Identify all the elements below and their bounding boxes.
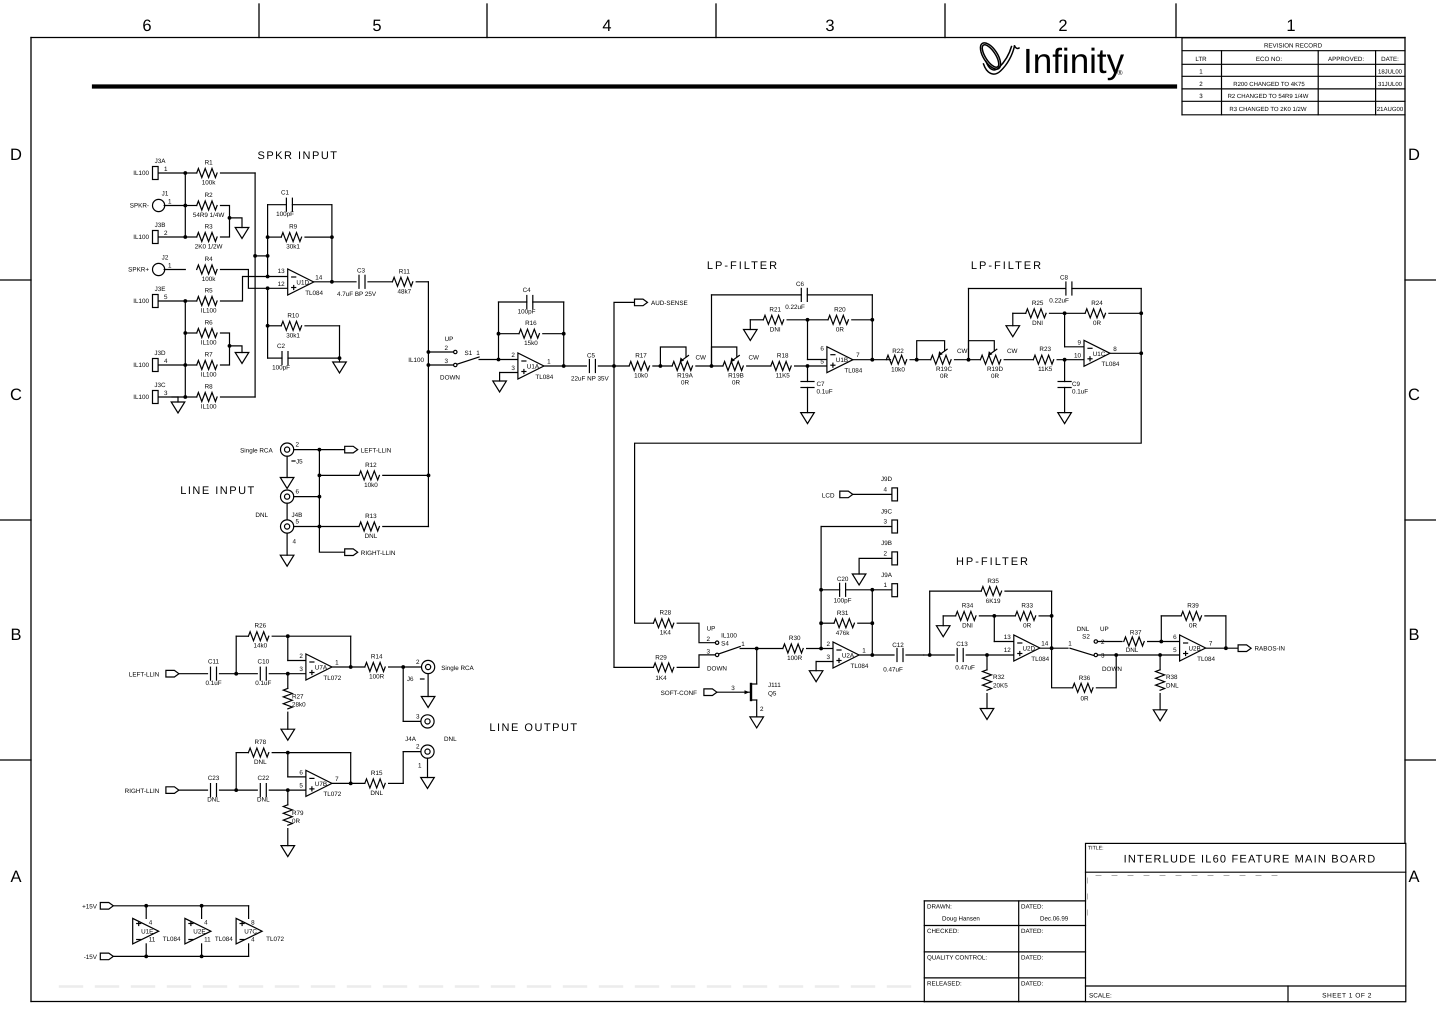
svg-text:U1B: U1B (836, 357, 848, 364)
svg-text:2: 2 (1199, 81, 1203, 88)
svg-text:DNI: DNI (1032, 320, 1043, 327)
svg-text:D: D (10, 146, 22, 164)
svg-text:J111: J111 (768, 682, 781, 689)
svg-text:5: 5 (164, 294, 168, 301)
svg-text:DOWN: DOWN (707, 666, 727, 673)
svg-text:R17: R17 (635, 353, 647, 360)
svg-text:LTR: LTR (1195, 56, 1207, 63)
svg-text:J9A: J9A (881, 572, 893, 579)
svg-text:22uF NP 35V: 22uF NP 35V (571, 376, 609, 383)
svg-text:2K0 1/2W: 2K0 1/2W (195, 244, 223, 251)
svg-text:S1: S1 (465, 350, 473, 357)
svg-text:0R: 0R (1023, 622, 1032, 629)
svg-text:C11: C11 (208, 659, 220, 666)
svg-text:R29: R29 (655, 655, 667, 662)
svg-text:100pF: 100pF (834, 598, 852, 605)
svg-text:3: 3 (1101, 653, 1105, 660)
svg-text:J9D: J9D (881, 476, 893, 483)
svg-text:DATED:: DATED: (1021, 904, 1044, 911)
svg-text:1: 1 (335, 660, 339, 667)
svg-text:R25: R25 (1032, 300, 1044, 307)
svg-text:J5: J5 (296, 459, 303, 466)
svg-text:Single RCA: Single RCA (240, 448, 273, 455)
svg-text:J3B: J3B (155, 222, 166, 229)
svg-text:R19A: R19A (677, 373, 694, 380)
svg-text:2: 2 (706, 636, 710, 643)
svg-text:TL072: TL072 (266, 936, 284, 943)
svg-text:R36: R36 (1079, 675, 1091, 682)
svg-text:TL084: TL084 (163, 936, 181, 943)
svg-text:R11: R11 (399, 268, 411, 275)
svg-text:100k: 100k (202, 180, 217, 187)
svg-text:RABOS-IN: RABOS-IN (1255, 646, 1286, 653)
svg-text:DNL: DNL (207, 797, 220, 804)
svg-text:Doug Hansen: Doug Hansen (942, 916, 980, 923)
svg-text:1: 1 (418, 763, 422, 770)
svg-text:SCALE:: SCALE: (1089, 993, 1112, 1000)
svg-text:TL084: TL084 (215, 936, 233, 943)
svg-text:J3A: J3A (155, 158, 167, 165)
svg-text:R24: R24 (1091, 300, 1103, 307)
svg-text:R37: R37 (1130, 630, 1142, 637)
svg-text:J6: J6 (407, 676, 414, 683)
svg-text:10k0: 10k0 (891, 367, 905, 374)
svg-text:3: 3 (164, 390, 168, 397)
svg-text:LP-FILTER: LP-FILTER (707, 260, 779, 272)
svg-text:C8: C8 (1060, 275, 1069, 282)
svg-text:3: 3 (511, 365, 515, 372)
svg-text:®: ® (1117, 70, 1123, 77)
svg-text:0.1uF: 0.1uF (817, 389, 833, 396)
svg-text:7: 7 (1209, 641, 1213, 648)
svg-text:U7A: U7A (315, 665, 328, 672)
svg-text:+15V: +15V (82, 904, 98, 911)
svg-text:14: 14 (315, 275, 323, 282)
svg-text:0.47uF: 0.47uF (883, 667, 903, 674)
svg-text:SPKR+: SPKR+ (128, 267, 149, 274)
svg-text:12: 12 (278, 281, 286, 288)
svg-text:RIGHT-LLIN: RIGHT-LLIN (125, 788, 160, 795)
svg-text:6: 6 (820, 346, 824, 353)
svg-text:11: 11 (149, 937, 156, 944)
svg-text:30k1: 30k1 (286, 332, 300, 339)
svg-text:R10: R10 (287, 312, 299, 319)
svg-text:R2: R2 (205, 192, 214, 199)
svg-text:2: 2 (416, 659, 420, 666)
svg-text:1: 1 (862, 648, 866, 655)
svg-text:TL084: TL084 (851, 663, 869, 670)
svg-text:DATED:: DATED: (1021, 981, 1044, 988)
svg-text:8: 8 (251, 920, 255, 927)
svg-text:R19B: R19B (728, 373, 744, 380)
svg-text:2: 2 (1058, 17, 1067, 35)
svg-text:TL084: TL084 (1197, 656, 1215, 663)
svg-text:J1: J1 (162, 191, 169, 198)
svg-text:B: B (10, 626, 21, 644)
svg-text:TITLE:: TITLE: (1088, 846, 1104, 852)
svg-text:1: 1 (168, 263, 172, 270)
svg-text:11K5: 11K5 (1038, 366, 1053, 373)
svg-text:1K4: 1K4 (655, 675, 667, 682)
svg-text:C4: C4 (523, 287, 532, 294)
svg-text:2: 2 (1101, 639, 1105, 646)
svg-text:DNL: DNL (257, 797, 270, 804)
svg-text:5: 5 (372, 17, 381, 35)
svg-text:DRAWN:: DRAWN: (927, 904, 952, 911)
svg-text:U1D: U1D (296, 280, 309, 287)
svg-text:10k0: 10k0 (634, 373, 648, 380)
svg-text:TL084: TL084 (1031, 656, 1049, 663)
svg-text:6: 6 (142, 17, 151, 35)
svg-text:5: 5 (296, 519, 300, 526)
svg-text:18JUL00: 18JUL00 (1378, 69, 1403, 76)
svg-text:2: 2 (299, 653, 303, 660)
svg-text:0.22uF: 0.22uF (785, 304, 805, 311)
svg-text:3: 3 (299, 666, 303, 673)
svg-text:U1C: U1C (1093, 351, 1106, 358)
svg-text:R200 CHANGED TO 4K75: R200 CHANGED TO 4K75 (1233, 81, 1305, 88)
svg-text:DATED:: DATED: (1021, 928, 1044, 935)
svg-text:3: 3 (444, 358, 448, 365)
svg-text:6: 6 (299, 769, 303, 776)
svg-text:R32: R32 (993, 674, 1005, 681)
svg-text:S4: S4 (721, 641, 729, 648)
svg-text:REVISION RECORD: REVISION RECORD (1264, 43, 1323, 50)
svg-text:R22: R22 (892, 348, 904, 355)
svg-text:31JUL00: 31JUL00 (1378, 81, 1403, 88)
svg-text:4: 4 (883, 486, 887, 493)
svg-text:LEFT-LLIN: LEFT-LLIN (361, 447, 392, 454)
svg-text:U1E: U1E (141, 929, 153, 936)
svg-text:TL084: TL084 (305, 290, 323, 297)
svg-text:11: 11 (204, 937, 211, 944)
svg-text:D: D (1408, 146, 1420, 164)
svg-text:DNL: DNL (370, 790, 383, 797)
svg-text:DNI: DNI (962, 622, 973, 629)
svg-text:AUD-SENSE: AUD-SENSE (651, 300, 688, 307)
svg-text:6K19: 6K19 (986, 598, 1001, 605)
svg-text:1: 1 (164, 166, 168, 173)
svg-text:IL100: IL100 (133, 394, 149, 401)
svg-text:2: 2 (883, 550, 887, 557)
svg-text:-15V: -15V (84, 954, 98, 961)
svg-text:C: C (1408, 386, 1420, 404)
svg-text:ECO NO:: ECO NO: (1256, 56, 1282, 63)
svg-text:4: 4 (251, 937, 255, 944)
svg-text:100pF: 100pF (518, 309, 536, 316)
svg-text:C: C (10, 386, 22, 404)
svg-text:0.47uF: 0.47uF (955, 665, 975, 672)
svg-text:1: 1 (476, 350, 480, 357)
svg-text:R7: R7 (205, 352, 214, 359)
svg-text:3: 3 (1199, 93, 1203, 100)
svg-text:IL100: IL100 (721, 633, 737, 640)
svg-text:APPROVED:: APPROVED: (1328, 56, 1364, 63)
svg-text:C13: C13 (956, 641, 968, 648)
svg-text:R19D: R19D (987, 366, 1004, 373)
svg-text:U7B: U7B (315, 781, 327, 788)
svg-text:R79: R79 (292, 810, 304, 817)
svg-text:2: 2 (296, 442, 300, 449)
svg-text:C20: C20 (837, 576, 849, 583)
svg-text:DNL: DNL (1166, 683, 1179, 690)
svg-text:R2 CHANGED TO 54R9 1/4W: R2 CHANGED TO 54R9 1/4W (1228, 93, 1309, 100)
svg-text:A: A (10, 868, 21, 886)
svg-text:3: 3 (416, 714, 420, 721)
svg-text:C3: C3 (357, 268, 366, 275)
svg-text:U2D: U2D (1022, 646, 1035, 653)
svg-text:TL084: TL084 (535, 374, 553, 381)
svg-text:J3D: J3D (154, 350, 166, 357)
svg-text:5: 5 (1173, 647, 1177, 654)
svg-text:R30: R30 (789, 635, 801, 642)
svg-text:476k: 476k (836, 630, 851, 637)
svg-text:100pF: 100pF (276, 211, 294, 218)
svg-text:R3: R3 (205, 224, 214, 231)
svg-text:C9: C9 (1072, 381, 1081, 388)
svg-text:R8: R8 (205, 384, 214, 391)
svg-text:9: 9 (1077, 339, 1081, 346)
svg-text:C12: C12 (892, 642, 904, 649)
svg-text:3: 3 (883, 519, 887, 526)
svg-text:U1A: U1A (527, 364, 540, 371)
svg-text:J9B: J9B (881, 540, 892, 547)
svg-text:R39: R39 (1187, 602, 1199, 609)
svg-text:R20: R20 (834, 306, 846, 313)
svg-text:TL072: TL072 (323, 675, 341, 682)
svg-text:DATED:: DATED: (1021, 955, 1044, 962)
svg-text:2: 2 (444, 345, 448, 352)
svg-text:UP: UP (1100, 626, 1109, 633)
svg-text:14k0: 14k0 (253, 643, 267, 650)
svg-text:U2E: U2E (193, 929, 205, 936)
svg-text:13: 13 (278, 268, 286, 275)
svg-text:C7: C7 (817, 381, 826, 388)
svg-text:12: 12 (1004, 647, 1012, 654)
svg-text:4: 4 (164, 358, 168, 365)
svg-text:SPKR INPUT: SPKR INPUT (257, 150, 338, 162)
svg-text:28k0: 28k0 (292, 702, 306, 709)
svg-text:IL100: IL100 (201, 340, 217, 347)
svg-text:DNL: DNL (255, 512, 268, 519)
svg-text:0.1uF: 0.1uF (255, 680, 271, 687)
svg-text:2: 2 (760, 706, 764, 713)
svg-text:R14: R14 (371, 654, 383, 661)
svg-text:2: 2 (164, 230, 168, 237)
svg-text:DOWN: DOWN (440, 375, 460, 382)
svg-text:R19C: R19C (936, 366, 953, 373)
svg-text:LP-FILTER: LP-FILTER (971, 260, 1043, 272)
svg-text:5: 5 (820, 359, 824, 366)
svg-text:C6: C6 (796, 281, 805, 288)
svg-text:6: 6 (1173, 634, 1177, 641)
svg-text:R21: R21 (769, 306, 781, 313)
svg-text:CW: CW (1007, 348, 1018, 355)
svg-text:1: 1 (741, 641, 745, 648)
svg-text:4: 4 (293, 539, 297, 546)
svg-text:U7C: U7C (244, 929, 257, 936)
svg-text:Dec.06.99: Dec.06.99 (1040, 916, 1069, 923)
svg-text:CW: CW (696, 355, 707, 362)
svg-text:SHEET 1 OF 2: SHEET 1 OF 2 (1322, 993, 1372, 1000)
svg-text:IL100: IL100 (133, 234, 149, 241)
svg-text:R5: R5 (205, 288, 214, 295)
svg-text:UP: UP (707, 626, 716, 633)
svg-text:2: 2 (826, 641, 830, 648)
svg-text:R12: R12 (365, 462, 377, 469)
svg-text:Infinity: Infinity (1023, 42, 1125, 81)
svg-text:IL100: IL100 (201, 372, 217, 379)
svg-text:R9: R9 (289, 224, 298, 231)
svg-text:2: 2 (511, 352, 515, 359)
svg-text:DNL: DNL (365, 533, 378, 540)
svg-text:4: 4 (602, 17, 611, 35)
svg-text:0.22uF: 0.22uF (1049, 298, 1069, 305)
svg-text:100R: 100R (787, 655, 803, 662)
svg-text:0.1uF: 0.1uF (205, 680, 221, 687)
svg-text:4.7uF BP 25V: 4.7uF BP 25V (337, 291, 377, 298)
svg-text:TL072: TL072 (323, 791, 341, 798)
svg-text:R13: R13 (365, 513, 377, 520)
svg-text:3: 3 (825, 17, 834, 35)
svg-text:R23: R23 (1039, 346, 1051, 353)
svg-text:7: 7 (335, 776, 339, 783)
svg-text:R31: R31 (837, 610, 849, 617)
svg-text:100R: 100R (369, 674, 385, 681)
svg-text:14: 14 (1041, 641, 1049, 648)
svg-text:LINE INPUT: LINE INPUT (180, 485, 256, 497)
svg-text:C22: C22 (258, 775, 270, 782)
svg-text:21AUG00: 21AUG00 (1377, 106, 1404, 113)
svg-text:0.1uF: 0.1uF (1072, 389, 1088, 396)
svg-text:TL084: TL084 (844, 368, 862, 375)
svg-text:R18: R18 (777, 353, 789, 360)
svg-text:5: 5 (299, 782, 303, 789)
svg-text:R3 CHANGED TO 2K0 1/2W: R3 CHANGED TO 2K0 1/2W (1229, 106, 1306, 113)
svg-text:10k0: 10k0 (364, 482, 378, 489)
svg-text:CW: CW (957, 348, 968, 355)
svg-text:6: 6 (296, 489, 300, 496)
svg-text:0R: 0R (732, 380, 741, 387)
svg-text:3: 3 (731, 685, 735, 692)
svg-text:7: 7 (856, 352, 860, 359)
svg-text:10: 10 (1074, 352, 1082, 359)
svg-text:J3E: J3E (155, 286, 166, 293)
svg-text:CHECKED:: CHECKED: (927, 928, 959, 935)
svg-text:0R: 0R (1080, 696, 1089, 703)
svg-text:R78: R78 (255, 739, 267, 746)
svg-text:R34: R34 (962, 602, 974, 609)
svg-text:54R9 1/4W: 54R9 1/4W (193, 212, 225, 219)
svg-text:100k: 100k (202, 276, 217, 283)
svg-text:RELEASED:: RELEASED: (927, 981, 962, 988)
svg-text:C23: C23 (208, 775, 220, 782)
svg-text:RIGHT-LLIN: RIGHT-LLIN (361, 550, 396, 557)
svg-text:Single RCA: Single RCA (441, 665, 474, 672)
svg-text:R27: R27 (292, 694, 304, 701)
svg-text:13: 13 (1004, 634, 1012, 641)
svg-text:R6: R6 (205, 320, 214, 327)
svg-text:DNL: DNL (254, 759, 267, 766)
svg-text:J3C: J3C (154, 382, 166, 389)
svg-text:0R: 0R (292, 818, 301, 825)
svg-text:S2: S2 (1082, 634, 1090, 641)
svg-text:11K5: 11K5 (776, 373, 791, 380)
svg-text:LEFT-LLIN: LEFT-LLIN (129, 671, 160, 678)
svg-text:15k0: 15k0 (524, 340, 538, 347)
svg-text:3: 3 (706, 649, 710, 656)
svg-text:R33: R33 (1021, 602, 1033, 609)
svg-text:1: 1 (1199, 69, 1203, 76)
svg-text:C5: C5 (587, 353, 596, 360)
svg-text:DATE:: DATE: (1381, 56, 1399, 63)
svg-text:HP-FILTER: HP-FILTER (956, 556, 1030, 568)
svg-text:4: 4 (149, 920, 153, 927)
svg-text:C2: C2 (277, 343, 286, 350)
svg-text:DNL: DNL (1077, 626, 1090, 633)
svg-text:0R: 0R (1093, 320, 1102, 327)
svg-text:8: 8 (1113, 346, 1117, 353)
svg-text:LINE OUTPUT: LINE OUTPUT (489, 722, 578, 734)
svg-text:20K5: 20K5 (993, 683, 1008, 690)
svg-text:0R: 0R (940, 373, 949, 380)
svg-text:2: 2 (416, 744, 420, 751)
svg-text:LCD: LCD (822, 493, 835, 500)
svg-text:1: 1 (547, 359, 551, 366)
svg-text:48k7: 48k7 (397, 288, 411, 295)
svg-text:J4A: J4A (405, 736, 417, 743)
svg-text:0R: 0R (991, 373, 1000, 380)
svg-text:1: 1 (883, 582, 887, 589)
svg-text:J9C: J9C (881, 508, 893, 515)
svg-text:Q5: Q5 (768, 691, 777, 698)
svg-text:R26: R26 (255, 623, 267, 630)
svg-text:R35: R35 (987, 578, 999, 585)
svg-text:QUALITY CONTROL:: QUALITY CONTROL: (927, 955, 987, 962)
svg-text:R38: R38 (1166, 674, 1178, 681)
svg-text:SOFT-CONF: SOFT-CONF (661, 690, 698, 697)
svg-text:R16: R16 (525, 320, 537, 327)
svg-text:1K4: 1K4 (660, 630, 672, 637)
svg-text:R15: R15 (371, 770, 383, 777)
svg-text:U2B: U2B (1188, 646, 1200, 653)
svg-text:0R: 0R (836, 326, 845, 333)
svg-text:IL100: IL100 (201, 308, 217, 315)
svg-text:1: 1 (168, 199, 172, 206)
svg-text:TL084: TL084 (1102, 361, 1120, 368)
svg-text:30k1: 30k1 (286, 244, 300, 251)
svg-text:0R: 0R (1189, 622, 1198, 629)
svg-text:CW: CW (749, 355, 760, 362)
svg-text:1: 1 (1286, 17, 1295, 35)
svg-text:C1: C1 (281, 190, 290, 197)
svg-text:DOWN: DOWN (1102, 666, 1122, 673)
svg-text:IL100: IL100 (408, 357, 424, 364)
svg-text:R1: R1 (205, 160, 214, 167)
svg-text:C10: C10 (258, 659, 270, 666)
svg-text:4: 4 (204, 920, 208, 927)
svg-text:U2A: U2A (842, 653, 855, 660)
svg-text:DNL: DNL (444, 736, 457, 743)
svg-text:J2: J2 (162, 255, 169, 262)
svg-text:SPKR-: SPKR- (130, 203, 149, 210)
svg-text:R4: R4 (205, 256, 214, 263)
svg-text:1: 1 (1068, 641, 1072, 648)
svg-text:IL100: IL100 (133, 362, 149, 369)
svg-text:R28: R28 (660, 610, 672, 617)
svg-text:IL100: IL100 (201, 404, 217, 411)
svg-text:IL100: IL100 (133, 170, 149, 177)
